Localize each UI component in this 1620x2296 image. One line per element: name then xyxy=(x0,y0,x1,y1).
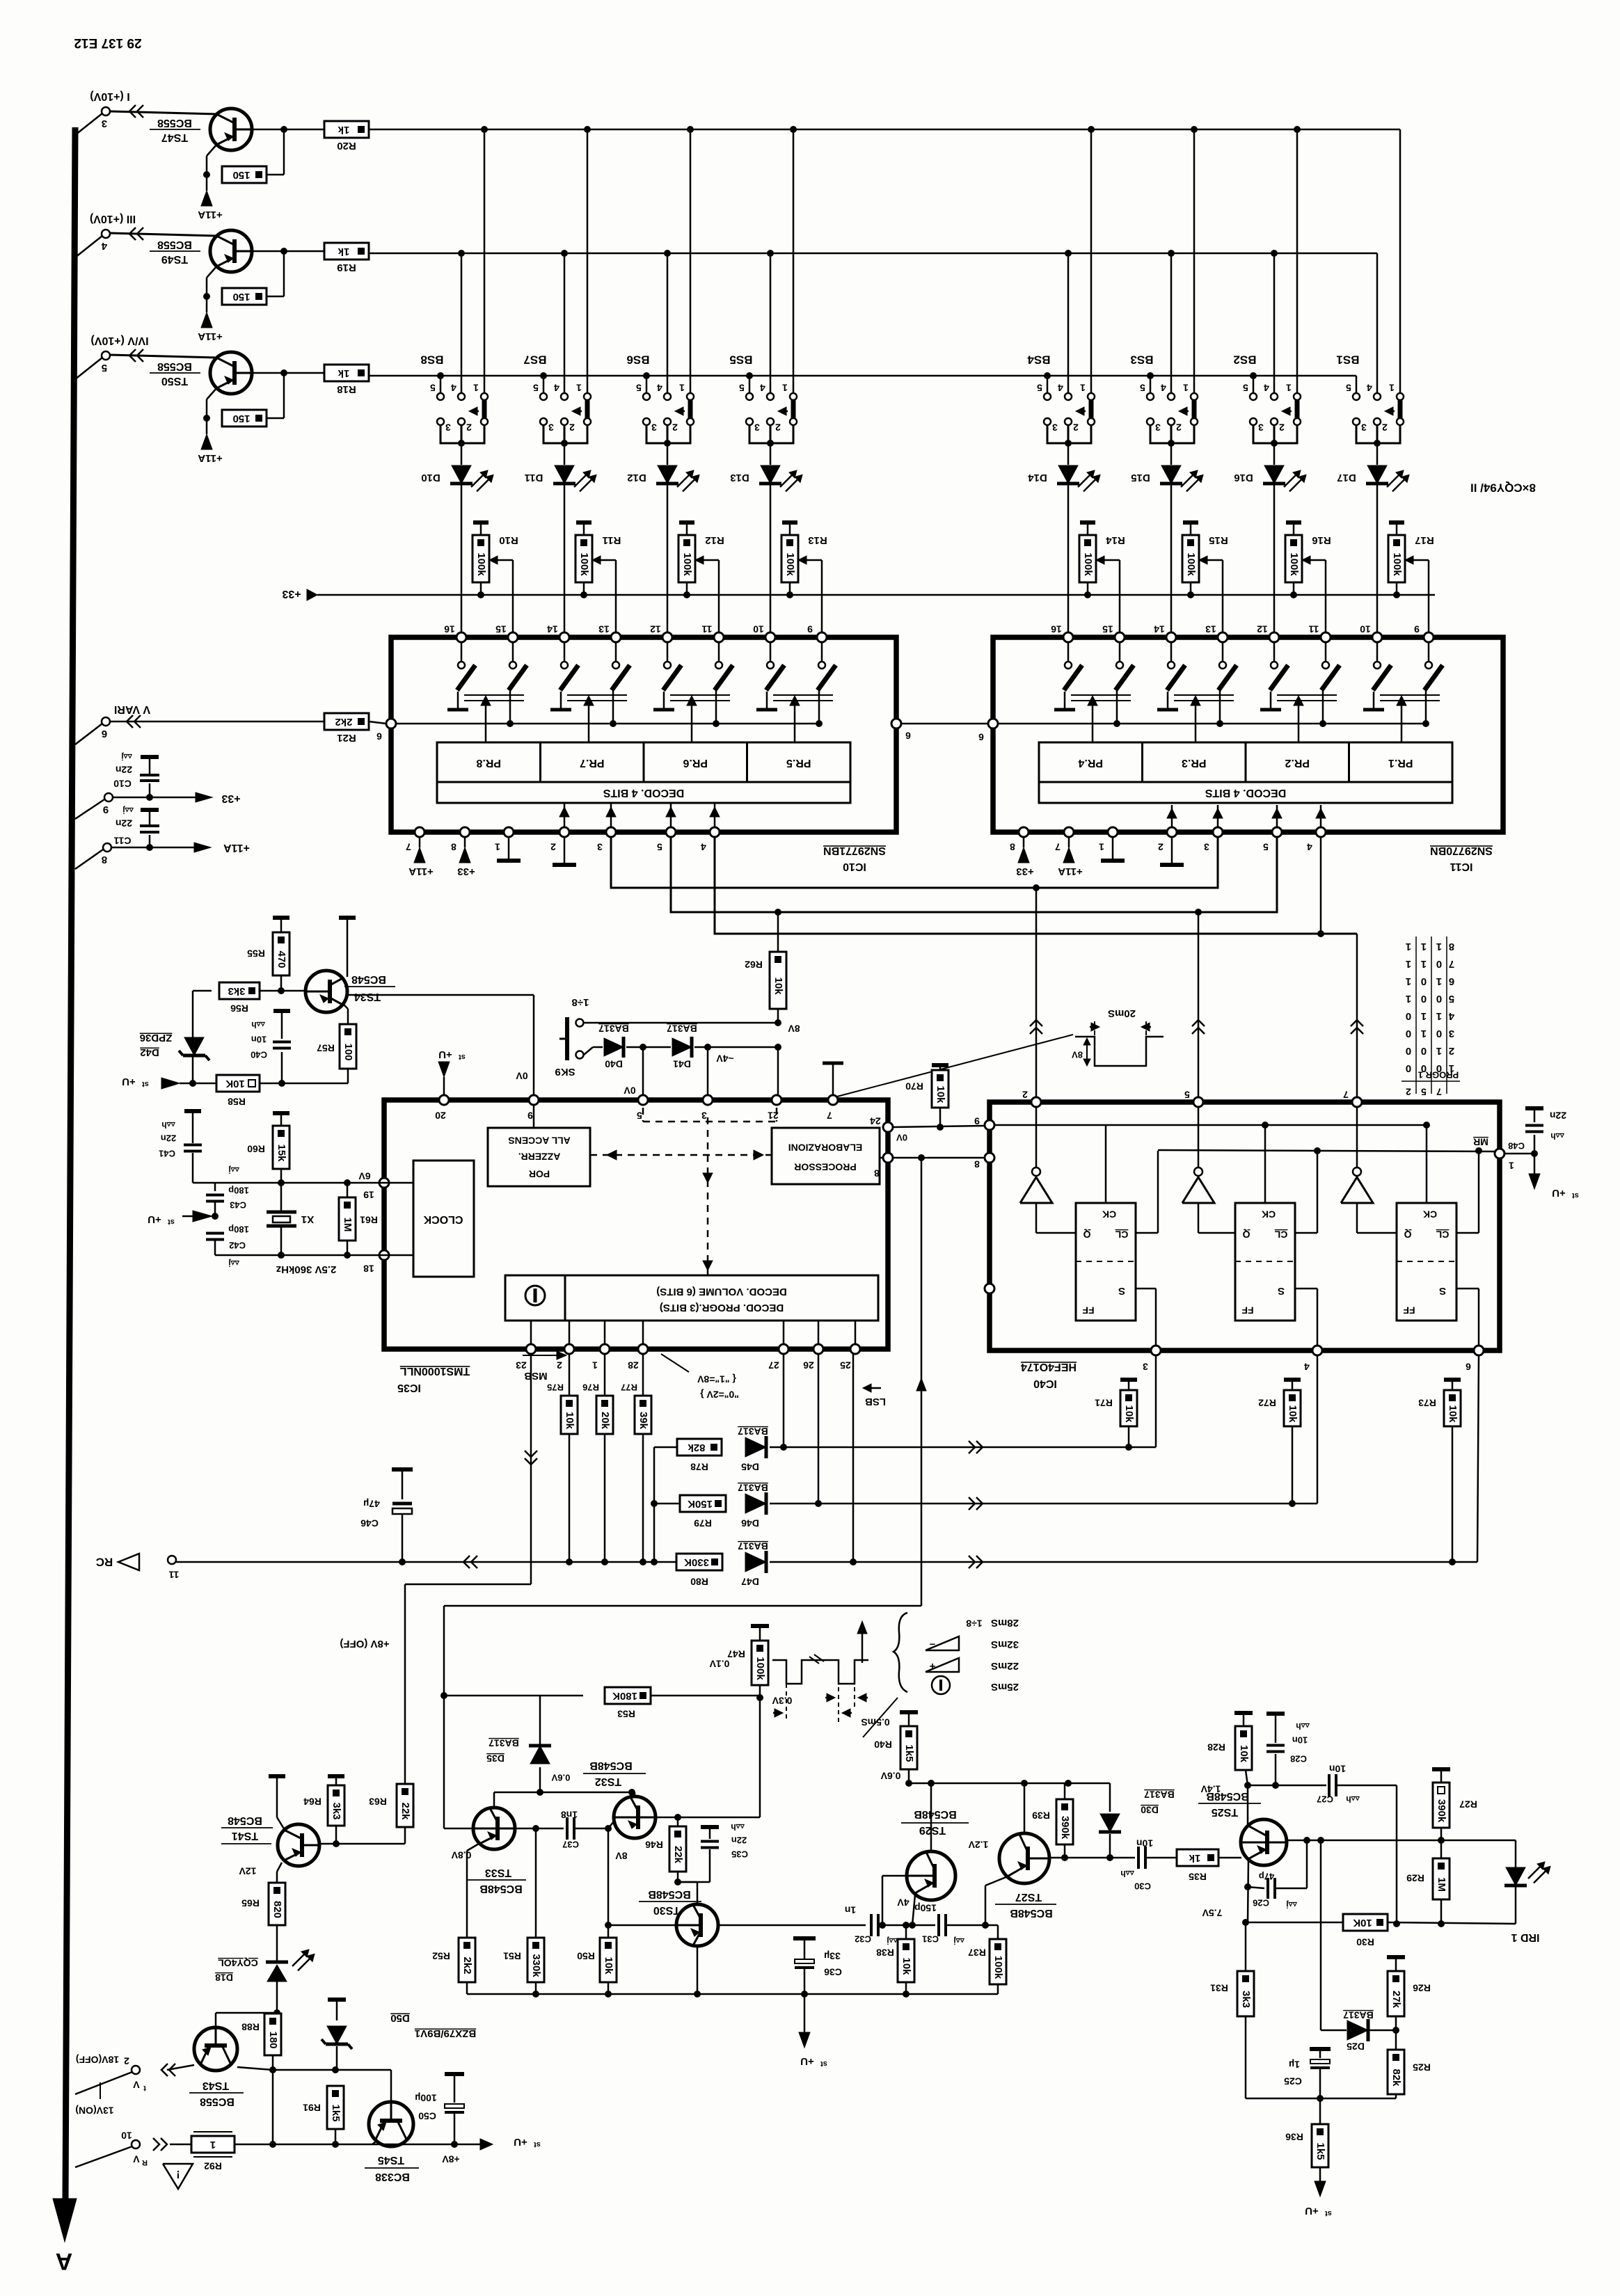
svg-text:28mS: 28mS xyxy=(991,1617,1019,1629)
svg-text:100k: 100k xyxy=(1288,552,1300,576)
svg-text:15: 15 xyxy=(1102,623,1113,635)
svg-text:R37: R37 xyxy=(968,1947,986,1958)
IC IC10 SN29771BN xyxy=(391,637,896,832)
svg-text:BC338: BC338 xyxy=(375,2171,410,2183)
wire IC10 pin6 to IC11 pin6 xyxy=(901,723,988,725)
svg-text:22n: 22n xyxy=(116,818,132,829)
svg-text:▵▵j: ▵▵j xyxy=(228,1165,239,1175)
capacitor C42 180p xyxy=(212,1213,219,1220)
svg-text:st: st xyxy=(168,1218,175,1226)
svg-text:R15: R15 xyxy=(1209,534,1228,546)
svg-text:0.5mS: 0.5mS xyxy=(861,1716,889,1728)
svg-text:470: 470 xyxy=(276,950,287,968)
svg-text:+U: +U xyxy=(800,2055,814,2067)
resistor R78 82k xyxy=(677,1439,722,1456)
svg-text:C42: C42 xyxy=(229,1241,246,1251)
svg-text:5: 5 xyxy=(1243,382,1248,393)
svg-text:+33: +33 xyxy=(221,792,240,804)
svg-text:D10: D10 xyxy=(421,472,440,484)
capacitor C30 10n xyxy=(1049,1857,1135,1859)
svg-text:C35: C35 xyxy=(731,1849,748,1860)
svg-text:8: 8 xyxy=(1010,841,1015,852)
svg-text:R55: R55 xyxy=(247,948,265,959)
svg-text:TS47: TS47 xyxy=(161,131,188,143)
svg-text:22k: 22k xyxy=(399,1802,411,1820)
wire 0.6V node xyxy=(909,1783,1110,1785)
svg-text:D13: D13 xyxy=(730,472,749,484)
+11A at IC11 pin7 xyxy=(1068,837,1070,847)
svg-text:5: 5 xyxy=(533,382,539,393)
svg-text:2: 2 xyxy=(1449,1045,1454,1057)
svg-text:BS6: BS6 xyxy=(626,353,649,367)
svg-text:25: 25 xyxy=(840,1360,851,1371)
internal switch pair xyxy=(1170,642,1173,661)
svg-text:0.1V: 0.1V xyxy=(709,1658,729,1669)
LED IRD1 xyxy=(1515,1840,1517,1867)
svg-text:3k3: 3k3 xyxy=(1240,1991,1252,2008)
svg-text:R91: R91 xyxy=(303,2102,321,2113)
svg-text:5: 5 xyxy=(1263,841,1269,852)
svg-text:D35: D35 xyxy=(486,1753,505,1764)
resistor R25 82k xyxy=(1388,2050,1404,2094)
crystal X1 xyxy=(280,1183,283,1212)
ground IC11 pin1 xyxy=(1112,837,1114,861)
svg-text:1: 1 xyxy=(1406,975,1411,987)
resistor R72 10k xyxy=(1284,1378,1301,1382)
svg-text:1: 1 xyxy=(1183,382,1189,393)
svg-text:TS33: TS33 xyxy=(485,1867,511,1879)
clock bus inside IC40 xyxy=(994,1124,1427,1126)
svg-text:1: 1 xyxy=(1406,993,1411,1005)
potentiometer R15 100k xyxy=(1183,520,1198,525)
svg-text:TS43: TS43 xyxy=(202,2080,229,2091)
resistor R35 1k xyxy=(1145,1857,1177,1859)
svg-text:+U: +U xyxy=(1305,2205,1319,2217)
svg-text:TS25: TS25 xyxy=(1212,1806,1238,1818)
svg-text:R: R xyxy=(142,2158,148,2167)
resistor R93 150 xyxy=(206,157,208,167)
svg-text:0V: 0V xyxy=(516,1070,528,1081)
svg-text:100k: 100k xyxy=(681,552,693,576)
svg-text:III (+10V): III (+10V) xyxy=(90,213,136,225)
connector pin 6 V VARI xyxy=(75,724,102,744)
resistor R37 100k xyxy=(997,1925,999,1939)
ground IC10 pin1 xyxy=(508,837,510,861)
dashed control lines xyxy=(590,1108,777,1275)
vertical joining rows xyxy=(653,1447,656,1562)
svg-text:10: 10 xyxy=(121,2130,132,2141)
svg-text:PR.1: PR.1 xyxy=(1388,757,1413,769)
svg-text:100k: 100k xyxy=(578,552,590,576)
CLOCK box xyxy=(413,1161,474,1277)
svg-text:20mS: 20mS xyxy=(1108,1007,1136,1019)
svg-text:20: 20 xyxy=(435,1110,446,1121)
svg-text:MSB: MSB xyxy=(524,1370,548,1382)
svg-text:1n8: 1n8 xyxy=(561,1809,578,1820)
svg-text:1: 1 xyxy=(1406,941,1411,952)
svg-text:4: 4 xyxy=(1367,382,1372,393)
svg-text:BS4: BS4 xyxy=(1027,353,1051,367)
svg-text:st: st xyxy=(1325,2209,1332,2217)
svg-text:6: 6 xyxy=(102,728,107,740)
svg-text:3: 3 xyxy=(1052,422,1058,433)
svg-text:3: 3 xyxy=(1361,422,1367,433)
svg-text:1µ: 1µ xyxy=(1289,2059,1300,2070)
svg-text:0.8V: 0.8V xyxy=(451,1849,471,1860)
svg-text:0: 0 xyxy=(1436,993,1442,1005)
svg-text:IRD 1: IRD 1 xyxy=(1511,1931,1539,1943)
svg-text:22k: 22k xyxy=(672,1846,684,1864)
svg-text:+8V: +8V xyxy=(442,2153,460,2165)
svg-text:2: 2 xyxy=(557,1360,562,1371)
svg-text:10n: 10n xyxy=(251,1035,267,1045)
svg-text:3: 3 xyxy=(445,422,451,433)
svg-text:27: 27 xyxy=(768,1360,779,1371)
svg-text:D18: D18 xyxy=(215,1972,233,1983)
svg-text:1: 1 xyxy=(1421,1010,1427,1022)
svg-text:CL: CL xyxy=(1115,1229,1128,1240)
resistor R38 10k xyxy=(905,1925,907,1939)
svg-text:PR.8: PR.8 xyxy=(476,757,501,769)
svg-text:D12: D12 xyxy=(627,472,646,484)
svg-text:R65: R65 xyxy=(241,1897,260,1908)
svg-text:R13: R13 xyxy=(808,534,827,546)
wire IC10 pin4 - IC11 pin4 xyxy=(715,837,1357,934)
svg-text:5: 5 xyxy=(1346,382,1351,393)
diode D41 BA317 xyxy=(626,1046,671,1049)
svg-text:8V: 8V xyxy=(615,1850,628,1861)
svg-text:27k: 27k xyxy=(1390,1991,1402,2009)
svg-text:R25: R25 xyxy=(1413,2062,1431,2073)
wire to R30 xyxy=(1246,1922,1343,1924)
svg-text:R62: R62 xyxy=(745,959,763,970)
svg-text:BC558: BC558 xyxy=(157,117,192,129)
svg-text:R20: R20 xyxy=(337,140,356,152)
svg-text:10k: 10k xyxy=(900,1957,912,1975)
capacitor C32 1n xyxy=(870,1914,873,1936)
svg-text:25mS: 25mS xyxy=(991,1681,1019,1693)
svg-text:10K: 10K xyxy=(225,1078,245,1090)
svg-text:2: 2 xyxy=(672,422,678,433)
transistor TS33 BC548B xyxy=(473,1808,515,1849)
resistor R31 3k3 xyxy=(1245,1922,1247,1971)
svg-text:C11: C11 xyxy=(113,835,131,846)
svg-text:6: 6 xyxy=(376,731,382,742)
ground bus bottom xyxy=(467,1993,998,1995)
svg-text:R64: R64 xyxy=(303,1796,321,1807)
LED D13 xyxy=(770,443,772,465)
svg-text:5: 5 xyxy=(1184,1089,1190,1100)
svg-text:3: 3 xyxy=(754,422,760,433)
+33 at IC10 pin8 xyxy=(464,837,466,847)
svg-text:0V: 0V xyxy=(896,1133,907,1143)
svg-text:180K: 180K xyxy=(612,1690,637,1702)
svg-text:R17: R17 xyxy=(1415,534,1434,546)
wire pin8 to IC40 pin8 xyxy=(893,1157,985,1159)
resistor R30 10K xyxy=(1343,1914,1388,1931)
svg-text:1: 1 xyxy=(1436,1010,1442,1022)
svg-text:1: 1 xyxy=(210,2139,216,2151)
svg-text:2: 2 xyxy=(1022,1089,1028,1100)
potentiometer R14 100k xyxy=(1080,520,1095,525)
svg-text:CQY4OL: CQY4OL xyxy=(218,1957,258,1968)
resistor R52 2k2 xyxy=(459,1938,475,1982)
+11A supply xyxy=(201,191,212,206)
resistor R61 1M xyxy=(344,1179,351,1186)
svg-text:R51: R51 xyxy=(503,1950,521,1961)
pointer line to pin 7 xyxy=(837,1035,1073,1097)
svg-text:5: 5 xyxy=(657,841,662,852)
svg-text:BS1: BS1 xyxy=(1336,353,1359,367)
potentiometer R11 100k xyxy=(576,520,591,525)
wire row3 bus RC net xyxy=(176,1561,676,1563)
resistor R63 22k xyxy=(397,1784,413,1827)
svg-text:20k: 20k xyxy=(599,1412,611,1430)
svg-text:+11A: +11A xyxy=(198,330,223,342)
diode D35 BA317 xyxy=(539,1767,541,1792)
wire pin19 net xyxy=(193,1182,391,1184)
svg-text:100k: 100k xyxy=(1185,552,1197,576)
svg-text:BS8: BS8 xyxy=(420,353,443,367)
svg-text:+33: +33 xyxy=(282,588,301,600)
svg-text:CLOCK: CLOCK xyxy=(423,1213,463,1225)
svg-text:DECOD. 4 BITS: DECOD. 4 BITS xyxy=(603,787,684,799)
svg-text:R27: R27 xyxy=(1459,1799,1477,1810)
svg-text:1: 1 xyxy=(1436,941,1442,952)
svg-text:st: st xyxy=(459,1053,466,1061)
+Ust below R36 xyxy=(1315,2181,1326,2197)
svg-text:IC10: IC10 xyxy=(843,861,866,872)
svg-text:7: 7 xyxy=(1055,841,1061,852)
capacitor C40 10n xyxy=(281,1052,283,1083)
MSB arrow xyxy=(523,1355,561,1356)
svg-text:+U: +U xyxy=(514,2136,527,2148)
svg-text:A: A xyxy=(56,2248,73,2274)
svg-text:S: S xyxy=(1278,1285,1285,1297)
resistor R91 1k5 xyxy=(333,2070,335,2086)
svg-text:▵▵h: ▵▵h xyxy=(1346,1794,1360,1804)
wire down to IC40 pin5 xyxy=(1198,912,1200,1097)
svg-text:DECOD. PROGR.(3 BITS): DECOD. PROGR.(3 BITS) xyxy=(660,1302,784,1314)
resistor R28 10k xyxy=(1234,1711,1253,1715)
wire R47 node down to TS32 xyxy=(759,1698,761,1817)
wire rail3 from R18 xyxy=(369,375,1356,377)
TS29 base wire xyxy=(882,1875,907,1877)
svg-text:R77: R77 xyxy=(621,1382,637,1393)
svg-text:BA317: BA317 xyxy=(738,1426,768,1437)
svg-text:100: 100 xyxy=(342,1043,354,1060)
svg-text:BS3: BS3 xyxy=(1130,353,1153,367)
svg-text:C32: C32 xyxy=(855,1934,871,1945)
wire down to IC40 pin2 xyxy=(1035,888,1038,1097)
transistor TS45 BC338 xyxy=(369,2102,413,2146)
svg-text:▵▵h: ▵▵h xyxy=(731,1822,745,1832)
svg-text:R16: R16 xyxy=(1312,534,1331,546)
svg-text:4: 4 xyxy=(760,382,765,393)
svg-text:3: 3 xyxy=(1258,422,1264,433)
svg-text:R92: R92 xyxy=(204,2160,222,2171)
svg-text:15k: 15k xyxy=(276,1144,287,1162)
svg-text:ALL ACCENS: ALL ACCENS xyxy=(508,1135,570,1146)
capacitor C26 47p xyxy=(1248,1859,1248,1922)
potentiometer R13 100k xyxy=(782,520,797,525)
+Ust below C36 xyxy=(804,1994,806,2036)
resistor R47 100k xyxy=(751,1624,769,1628)
TS29 emitter xyxy=(912,1895,915,1925)
transistor TS34 BC548 xyxy=(281,990,305,992)
+Ust at pin 20 xyxy=(438,1062,450,1077)
svg-text:I (+10V): I (+10V) xyxy=(90,90,129,102)
svg-text:+: + xyxy=(929,1660,935,1672)
svg-text:IC35: IC35 xyxy=(397,1382,421,1394)
wire down to IC40 pin7 xyxy=(1356,934,1358,1097)
svg-text:DECOD. 4 BITS: DECOD. 4 BITS xyxy=(1205,787,1286,799)
wire 1.4V node xyxy=(1248,1785,1326,1787)
svg-text:D42: D42 xyxy=(140,1046,159,1058)
svg-text:1÷8: 1÷8 xyxy=(966,1618,982,1629)
svg-text:1: 1 xyxy=(1509,1160,1514,1171)
resistor R18 1k xyxy=(252,372,324,374)
potentiometer R12 100k xyxy=(679,520,694,525)
svg-text:2: 2 xyxy=(124,2055,129,2066)
svg-text:ZPD36: ZPD36 xyxy=(140,1032,173,1044)
svg-text:IC40: IC40 xyxy=(1033,1378,1057,1389)
svg-text:1k: 1k xyxy=(337,367,349,379)
resistor R21 2k2 xyxy=(324,713,369,730)
svg-text:6: 6 xyxy=(1449,975,1454,987)
svg-text:R36: R36 xyxy=(1285,2131,1303,2142)
svg-text:22n: 22n xyxy=(1550,1110,1566,1121)
transistor TS30 BC548B xyxy=(678,1881,697,1883)
internal switch pair xyxy=(461,642,463,661)
svg-text:4: 4 xyxy=(1307,841,1312,852)
svg-text:2: 2 xyxy=(1279,422,1285,433)
svg-text:5: 5 xyxy=(739,382,745,393)
svg-text:1: 1 xyxy=(1099,841,1104,852)
svg-text:4: 4 xyxy=(1304,1361,1310,1372)
svg-text:R35: R35 xyxy=(1189,1871,1207,1882)
wire rail2 from R19 xyxy=(369,253,1377,255)
resistor R40 1k5 xyxy=(900,1710,918,1714)
svg-text:6V: 6V xyxy=(358,1170,371,1181)
svg-text:18V(OFF): 18V(OFF) xyxy=(76,2054,119,2065)
capacitor C41 22n xyxy=(184,1109,201,1113)
svg-text:5: 5 xyxy=(1140,382,1145,393)
svg-text:V: V xyxy=(133,2079,140,2090)
capacitor C28 10n xyxy=(1266,1712,1285,1716)
diode D46 BA317 xyxy=(745,1494,766,1513)
svg-text:+U: +U xyxy=(1552,1187,1566,1199)
svg-text:0.6V: 0.6V xyxy=(551,1773,570,1783)
svg-text:HEF4O174: HEF4O174 xyxy=(1021,1361,1077,1373)
svg-text:10: 10 xyxy=(1360,623,1371,635)
potentiometer R10 100k xyxy=(473,520,489,525)
svg-text:C25: C25 xyxy=(1284,2075,1302,2087)
svg-text:+11A: +11A xyxy=(198,209,223,221)
svg-text:5: 5 xyxy=(637,1110,642,1121)
svg-text:+11A: +11A xyxy=(223,842,250,854)
svg-text:8×CQY94/ II: 8×CQY94/ II xyxy=(1470,481,1536,495)
svg-text:R10: R10 xyxy=(499,534,518,546)
TS33 emitter xyxy=(467,1844,479,1851)
svg-text:+U: +U xyxy=(122,1076,136,1087)
svg-text:1k: 1k xyxy=(337,246,349,257)
diode D45 BA317 xyxy=(745,1437,766,1457)
svg-text:PROGR 1: PROGR 1 xyxy=(1418,1070,1459,1081)
svg-text:2: 2 xyxy=(1382,422,1388,433)
svg-text:5: 5 xyxy=(430,382,436,393)
svg-text:R14: R14 xyxy=(1106,534,1125,546)
svg-text:BS7: BS7 xyxy=(523,353,546,367)
IC IC11 SN29770BN xyxy=(993,637,1503,832)
wire C32/C31 line xyxy=(718,1924,866,1927)
svg-text:BC558: BC558 xyxy=(157,239,192,250)
svg-text:180p: 180p xyxy=(228,1186,249,1196)
svg-text:BA317: BA317 xyxy=(667,1023,697,1034)
LED D12 xyxy=(667,443,669,465)
inverter xyxy=(1182,1177,1214,1203)
svg-text:1: 1 xyxy=(1080,382,1086,393)
svg-text:Q: Q xyxy=(1083,1229,1090,1240)
svg-text:C36: C36 xyxy=(824,1966,842,1977)
svg-text:R57: R57 xyxy=(317,1042,335,1053)
internal switch pair xyxy=(1376,642,1379,661)
svg-text:1k5: 1k5 xyxy=(330,2104,342,2121)
svg-text:TS34: TS34 xyxy=(354,991,381,1003)
svg-text:9: 9 xyxy=(527,1110,533,1121)
LED D17 xyxy=(1376,443,1379,465)
svg-text:11: 11 xyxy=(168,1569,179,1580)
resistor R20 1k xyxy=(252,129,324,131)
resistor R51 330k xyxy=(535,1828,537,1938)
svg-text:0: 0 xyxy=(1436,1028,1442,1039)
svg-text:100k: 100k xyxy=(992,1956,1004,1979)
ground T above pin 7 xyxy=(832,1063,834,1095)
transistor TS27 BC548B xyxy=(999,1833,1049,1883)
svg-text:D50: D50 xyxy=(390,2012,410,2024)
svg-text:2: 2 xyxy=(1073,422,1079,433)
svg-text:R53: R53 xyxy=(617,1708,635,1719)
collector to T-bar xyxy=(343,975,347,979)
resistor R80 330K xyxy=(676,1554,722,1570)
svg-text:3: 3 xyxy=(1155,422,1161,433)
svg-text:3: 3 xyxy=(102,118,107,129)
LSB arrow xyxy=(867,1387,881,1389)
svg-text:PR.6: PR.6 xyxy=(683,757,708,769)
svg-text:2: 2 xyxy=(466,422,472,433)
svg-text:4: 4 xyxy=(101,240,107,252)
svg-text:7: 7 xyxy=(1449,958,1454,970)
svg-text:BC548B: BC548B xyxy=(1010,1907,1052,1919)
svg-text:10K: 10K xyxy=(1353,1917,1372,1929)
svg-text:▵▵h: ▵▵h xyxy=(251,1020,265,1030)
svg-text:24: 24 xyxy=(870,1115,881,1126)
svg-text:C41: C41 xyxy=(159,1149,175,1159)
+8V(OFF) wire xyxy=(404,1584,406,1784)
svg-text:1k5: 1k5 xyxy=(1315,2142,1326,2160)
connector pin 3 (I (+10V)) xyxy=(75,113,102,135)
svg-text:D11: D11 xyxy=(525,472,543,484)
transistor TS50 BC558 xyxy=(110,355,217,358)
svg-text:BA317: BA317 xyxy=(738,1540,768,1552)
svg-text:4: 4 xyxy=(701,841,706,852)
svg-text:150p: 150p xyxy=(914,1902,937,1913)
svg-text:V: V xyxy=(133,2153,140,2165)
svg-text:100k: 100k xyxy=(754,1657,766,1680)
svg-text:1: 1 xyxy=(592,1360,598,1371)
svg-text:13: 13 xyxy=(1205,623,1216,635)
svg-text:R47: R47 xyxy=(727,1648,745,1659)
